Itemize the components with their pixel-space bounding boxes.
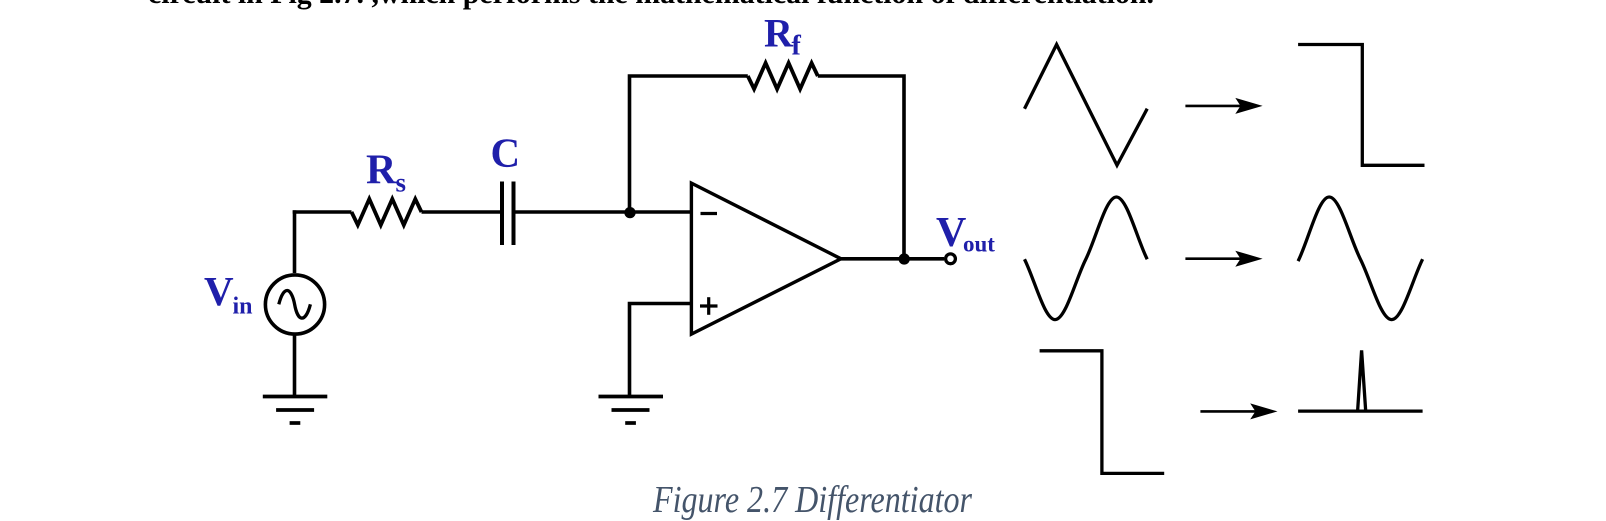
output terminal (open circle) xyxy=(946,254,956,264)
source Vin xyxy=(265,210,351,396)
waveform: input triangle wave xyxy=(1025,45,1148,166)
op-amp U1 xyxy=(691,183,841,334)
wire feedback riser (node up) xyxy=(630,76,748,212)
sine symbol inside source xyxy=(279,290,311,318)
resistor Rf xyxy=(748,63,818,89)
wire Vin top lead xyxy=(293,210,297,273)
waveform: output impulse xyxy=(1298,350,1423,411)
svg-text:f: f xyxy=(792,31,802,62)
waveform: output square wave xyxy=(1298,45,1424,166)
arrow 3 xyxy=(1200,403,1277,419)
svg-text:V: V xyxy=(204,268,234,314)
wire Vin bottom lead xyxy=(293,334,297,397)
arrow 2 xyxy=(1185,251,1262,267)
wire Rs to C xyxy=(422,210,501,214)
node junction dot (output) xyxy=(899,253,910,264)
svg-text:R: R xyxy=(764,11,794,56)
ground (op-amp non-inverting input) xyxy=(599,397,664,424)
svg-text:V: V xyxy=(936,210,966,256)
ground (under Vin) xyxy=(263,397,328,424)
waveform: output sine wave xyxy=(1298,197,1423,320)
svg-text:in: in xyxy=(233,294,253,320)
svg-text:R: R xyxy=(366,148,397,194)
wire Rf to output column xyxy=(818,76,904,259)
source circle xyxy=(265,275,324,334)
wire input to Rs xyxy=(293,210,352,214)
waveform: input step wave xyxy=(1040,351,1165,474)
wire C to inverting node xyxy=(516,210,692,214)
node junction dot (inverting input) xyxy=(624,207,635,218)
waveform: input sine wave xyxy=(1025,197,1148,320)
svg-text:Figure 2.7 Differentiator: Figure 2.7 Differentiator xyxy=(652,479,972,521)
arrow 1 xyxy=(1185,98,1262,114)
svg-text:s: s xyxy=(396,168,407,198)
op-amp plus pin label xyxy=(700,297,718,315)
svg-text:out: out xyxy=(963,232,995,257)
svg-text:circuit in Fig 2.7. ,which per: circuit in Fig 2.7. ,which performs the … xyxy=(148,0,1154,10)
svg-text:C: C xyxy=(491,130,521,176)
capacitor C xyxy=(502,182,514,246)
resistor Rs xyxy=(352,199,422,225)
wire non-inverting input to ground xyxy=(630,304,692,397)
wire op-amp output xyxy=(841,257,944,261)
op-amp minus pin label xyxy=(701,212,718,215)
